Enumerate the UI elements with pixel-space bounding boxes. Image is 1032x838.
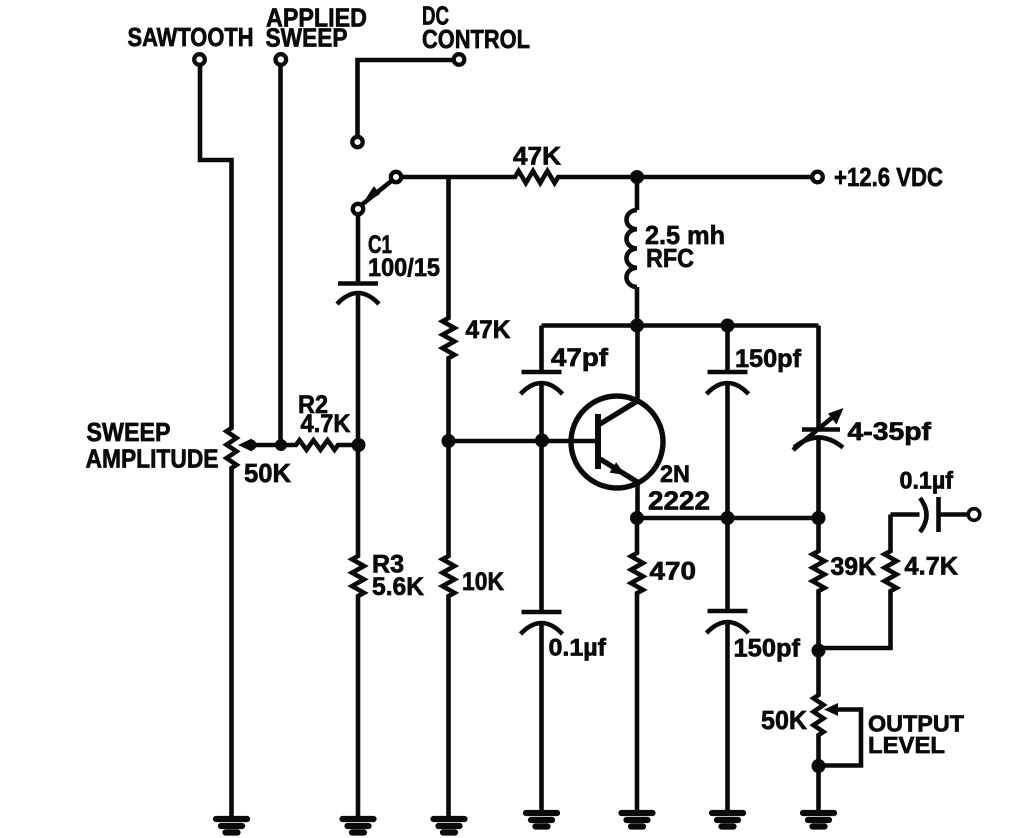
svg-text:47K: 47K [513,143,561,171]
svg-text:150pf: 150pf [735,345,802,373]
svg-text:150pf: 150pf [734,635,801,663]
svg-text:10K: 10K [462,568,504,596]
svg-text:2222: 2222 [648,486,710,516]
svg-text:AMPLITUDE: AMPLITUDE [86,444,219,474]
svg-text:47pf: 47pf [551,344,609,372]
svg-text:39K: 39K [831,553,877,581]
svg-text:4-35pf: 4-35pf [848,418,932,446]
svg-text:LEVEL: LEVEL [868,732,945,758]
svg-text:4.7K: 4.7K [301,410,351,438]
svg-text:100/15: 100/15 [368,254,440,282]
svg-text:SWEEP: SWEEP [87,417,171,447]
svg-text:470: 470 [650,558,697,586]
svg-text:+12.6 VDC: +12.6 VDC [834,162,943,192]
svg-text:50K: 50K [761,705,807,735]
svg-text:0.1µf: 0.1µf [549,635,608,662]
svg-text:RFC: RFC [646,243,694,273]
svg-text:47K: 47K [466,316,511,344]
svg-text:SAWTOOTH: SAWTOOTH [128,22,254,52]
svg-text:SWEEP: SWEEP [266,23,348,53]
svg-text:50K: 50K [244,458,291,488]
svg-text:4.7K: 4.7K [905,553,959,581]
svg-text:2N: 2N [660,461,690,488]
svg-text:CONTROL: CONTROL [422,24,530,54]
svg-text:5.6K: 5.6K [372,573,424,601]
svg-text:0.1µf: 0.1µf [900,468,954,495]
